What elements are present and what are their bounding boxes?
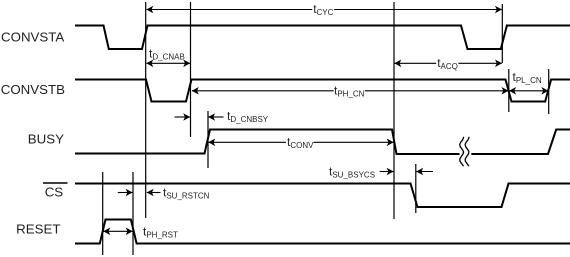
svg-text:BUSY: BUSY <box>28 132 64 147</box>
label tCYC <box>313 2 333 17</box>
signal label CS with overline <box>43 183 68 199</box>
dimension tCONV arrow <box>208 139 393 147</box>
BUSY break squiggle right curve <box>465 137 469 166</box>
vertical tick at CS falling edge x=416 <box>415 164 417 213</box>
dimension tD_CNBSY outside arrows <box>175 113 224 121</box>
CS waveform <box>75 184 570 208</box>
dimension tPH_RST arrow <box>103 228 132 236</box>
RESET waveform <box>75 220 570 244</box>
vertical reference line at CONVSTA rising edge x=146 <box>145 2 147 218</box>
CONVSTA waveform <box>75 26 570 50</box>
dimension tCYC arrow line <box>146 6 502 14</box>
vertical reference line at BUSY falling edge x=394 <box>393 2 395 219</box>
dimension tPH_CN arrow <box>192 87 509 95</box>
vertical tick at CONVSTB second rising edge x=549 <box>548 69 550 114</box>
vertical tick at CONVSTB falling edge x=509 <box>508 69 510 112</box>
svg-text:RESET: RESET <box>16 222 60 237</box>
vertical reference line at CONVSTB rising edge x=190 <box>190 2 192 137</box>
label tACQ <box>437 56 458 71</box>
BUSY waveform right of break <box>471 130 570 155</box>
dimension tPL_CN arrow <box>509 87 548 95</box>
vertical reference line at RESET falling edge x=133 <box>132 172 134 255</box>
svg-text:CONVSTB: CONVSTB <box>1 82 65 97</box>
svg-text:CS: CS <box>45 184 64 199</box>
dimension tSU_BSYCS outside arrows <box>380 168 433 176</box>
dimension tACQ arrow <box>394 60 502 68</box>
dimension tSU_RSTCN outside arrows <box>118 189 161 197</box>
label tPH_CN <box>334 84 365 99</box>
vertical tick at BUSY rising edge x=208 <box>207 111 209 168</box>
svg-text:CONVSTA: CONVSTA <box>1 29 64 44</box>
CONVSTB waveform <box>75 80 570 102</box>
label tCONV <box>287 135 314 150</box>
dimension tD_CNAB arrow <box>146 60 190 68</box>
vertical reference line at RESET rising edge x=103 <box>102 172 104 255</box>
BUSY break squiggle left curve <box>460 137 464 166</box>
BUSY waveform left of break <box>75 130 460 155</box>
vertical reference line at CONVSTA second rising edge x=502 <box>501 4 503 63</box>
